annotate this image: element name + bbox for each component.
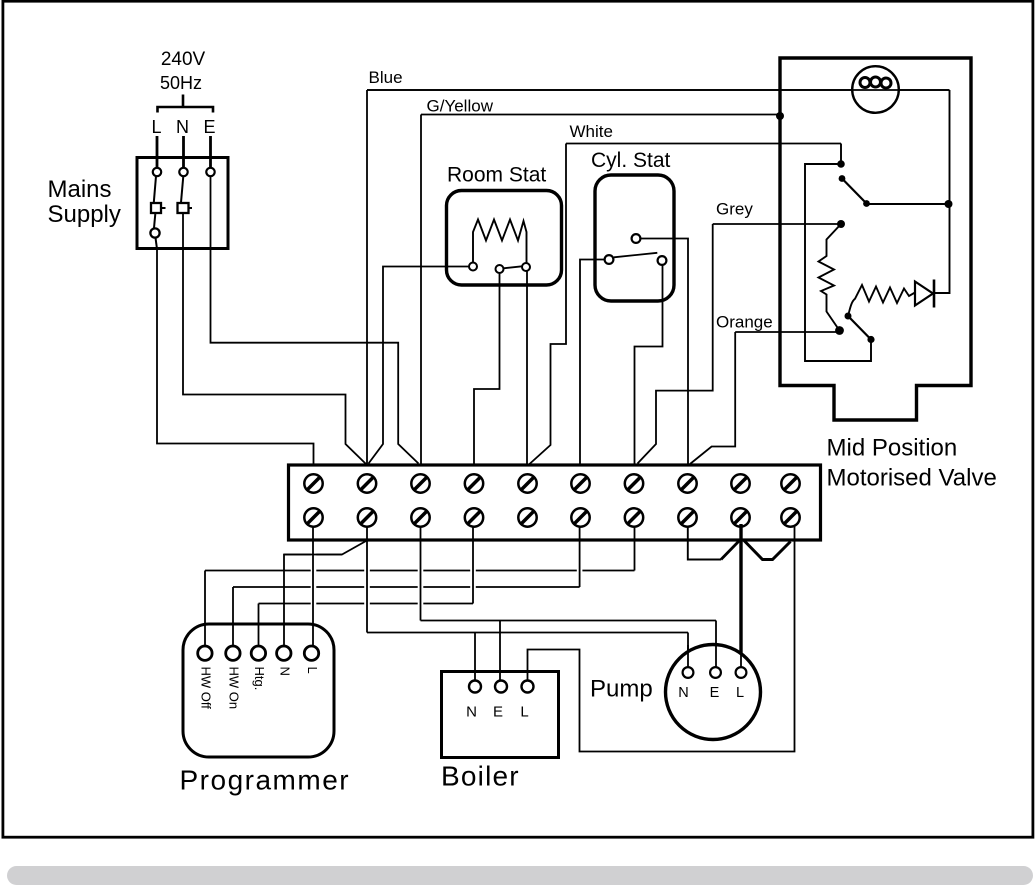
svg-text:E: E [493,704,503,721]
svg-text:White: White [570,122,613,141]
svg-text:Motorised Valve: Motorised Valve [827,465,997,492]
svg-text:N: N [466,704,477,721]
svg-text:Room Stat: Room Stat [447,164,546,187]
svg-text:HW Off: HW Off [198,667,213,710]
svg-text:Pump: Pump [590,676,653,703]
svg-text:Mains: Mains [48,176,112,203]
svg-text:G/Yellow: G/Yellow [427,97,494,116]
svg-text:L: L [736,685,744,701]
svg-text:Supply: Supply [48,201,121,228]
svg-text:Boiler: Boiler [441,761,520,792]
svg-text:HW On: HW On [226,667,241,710]
svg-text:N: N [277,667,292,676]
svg-text:L: L [520,704,528,721]
svg-text:Blue: Blue [369,68,403,87]
svg-text:E: E [710,685,720,701]
svg-text:Grey: Grey [716,200,753,219]
svg-text:50Hz: 50Hz [160,73,202,93]
svg-text:Cyl. Stat: Cyl. Stat [591,149,671,172]
svg-text:240V: 240V [161,49,206,70]
svg-text:L: L [151,117,161,137]
svg-text:Programmer: Programmer [180,765,351,796]
svg-text:Htg.: Htg. [252,667,267,691]
svg-text:Orange: Orange [716,313,773,332]
svg-text:N: N [678,685,688,701]
svg-text:E: E [203,117,215,137]
svg-text:L: L [305,667,320,674]
svg-text:Mid Position: Mid Position [827,435,958,462]
svg-text:N: N [176,117,189,137]
